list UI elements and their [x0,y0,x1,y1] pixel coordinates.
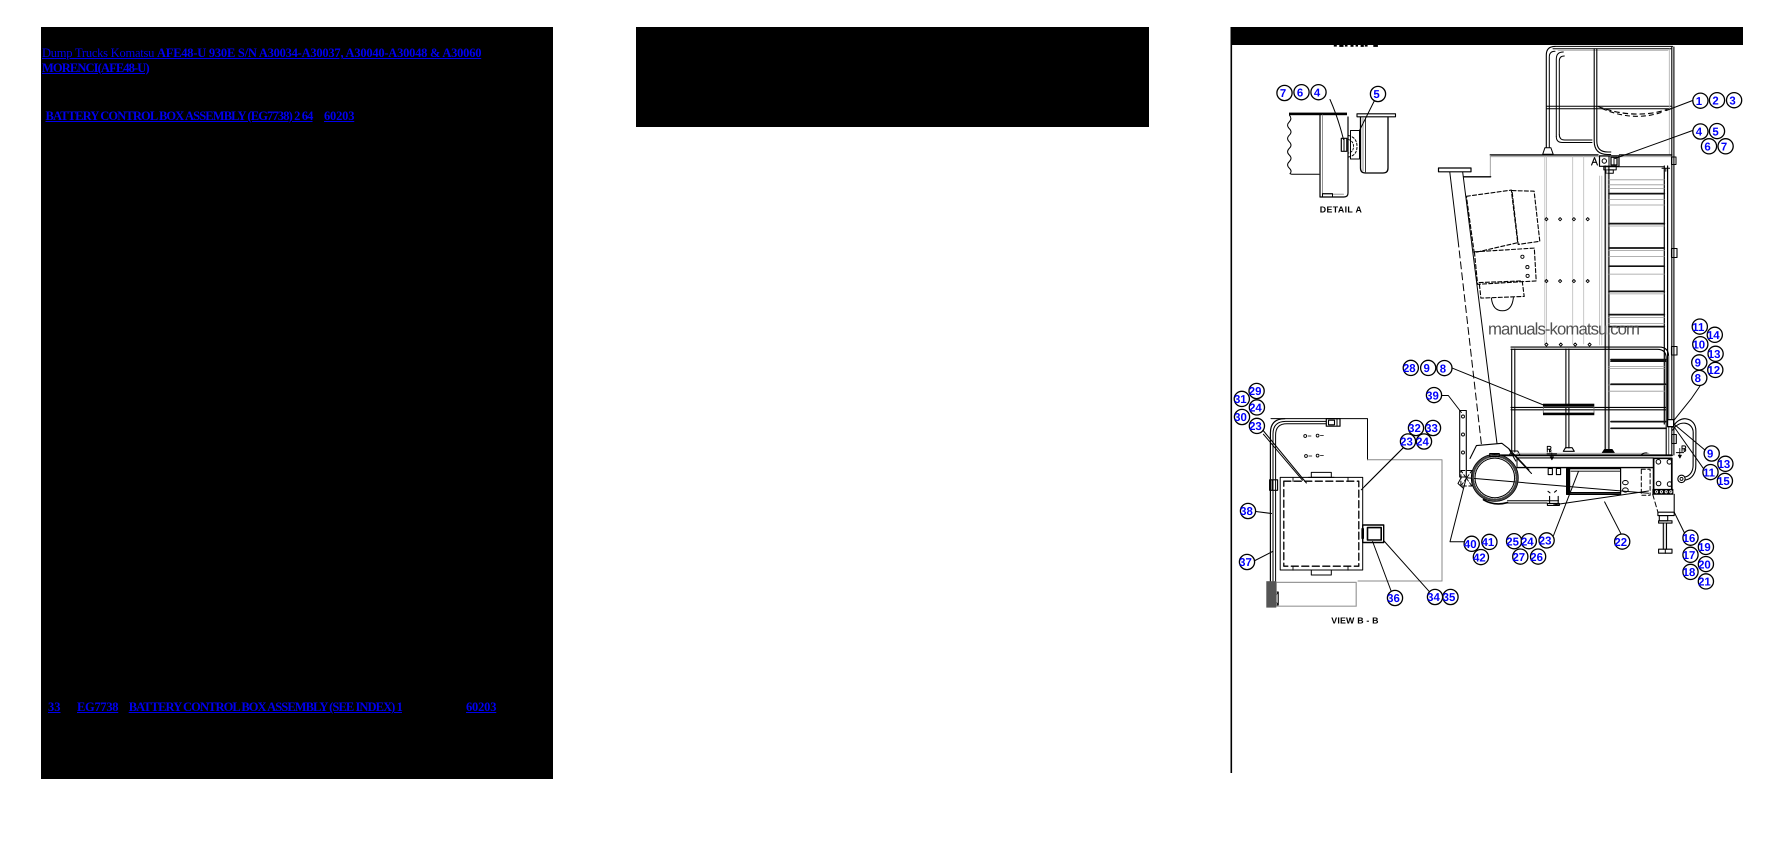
balloon 29 [1249,383,1264,398]
bottom deck edge line [1500,454,1672,456]
leader 36 [1373,542,1392,592]
balloon 14 [1707,327,1722,342]
channel top tab [1326,419,1340,427]
leader 22 [1605,502,1621,534]
left rail inner (second tube) [1556,52,1564,137]
balloon 24 left [1249,400,1264,415]
wall tab mid [1672,249,1678,258]
svg-text:10: 10 [1692,339,1705,351]
balloon 23 left [1249,418,1264,433]
balloon 11 [1692,319,1707,334]
diagonal brace short [1554,491,1649,505]
balloon 40 [1464,536,1479,551]
left rail outer with rounded corner [1546,46,1555,147]
pipe end ball [1678,475,1685,482]
jack foot [1659,549,1672,553]
leaders from 32/33/23/24 cluster [1361,445,1406,490]
support column flange [1439,168,1472,172]
circle bottom flat [1484,500,1508,504]
svg-text:36: 36 [1387,593,1400,605]
svg-text:41: 41 [1482,537,1495,549]
balloon 11 lower [1703,465,1718,480]
svg-text:4: 4 [1696,127,1703,139]
leaders from 29/23 cluster [1263,434,1302,480]
svg-text:1: 1 [1696,96,1703,108]
VBB outer boundary [1271,419,1368,460]
svg-text:4: 4 [1314,87,1321,99]
leader balloon4 to A box [1615,131,1692,159]
svg-text:12: 12 [1707,365,1720,377]
left mount bracket with X [1461,471,1472,487]
equipment box 2 [1512,191,1540,245]
balloon 37 [1239,554,1254,569]
balloon 9 mid [1421,360,1436,375]
mid horizontal rail [1547,106,1672,109]
battery box dashed [1284,481,1359,566]
mount point A box [1592,156,1619,173]
balloon 22 [1614,534,1629,549]
leader 39 [1442,396,1462,413]
svg-text:24: 24 [1521,536,1534,548]
right page: technical diagram [1225,0,1785,842]
ladder rungs dark [1609,194,1666,429]
left rail foot [1543,148,1554,155]
leader 37 [1255,552,1273,561]
pipe fitting at rail [1668,420,1674,427]
svg-text:18: 18 [1683,567,1696,579]
page top redaction bar [1231,27,1743,45]
header text remnants under bar [1334,45,1378,47]
platform top rail (double) [1553,46,1673,48]
svg-text:24: 24 [1249,403,1262,415]
balloon 10 [1692,337,1707,352]
balloon 13 lower [1718,456,1733,471]
detail A: cylinder body [1361,117,1389,173]
balloon 33 [1425,420,1440,435]
detail A: dashed boss outline [1349,136,1358,158]
shadow box gray [1276,582,1356,606]
hanger tabs left of box [1548,468,1552,474]
svg-text:30: 30 [1234,412,1247,424]
equipment box 1 (tilted, dashed) [1466,190,1517,253]
channel bottom foot [1270,592,1279,605]
left panel link line 2 [42,61,149,76]
balloon 5 [1709,124,1724,139]
svg-text:9: 9 [1695,358,1701,370]
detail A: right flange plate [1357,114,1396,117]
balloon 6 [1701,139,1716,154]
wall tab upper [1672,157,1677,165]
diagonal brace long [1466,478,1648,494]
detail A: torn panel wavy left edge [1288,115,1319,174]
balloon 12 [1707,362,1722,377]
balloon 42 [1473,550,1488,565]
svg-text:9: 9 [1424,363,1430,375]
balloon 24 [1521,534,1536,549]
svg-text:13: 13 [1718,459,1731,471]
balloon 21 [1698,574,1713,589]
mounting plate [1653,458,1675,553]
left panel bottom row [48,700,61,715]
ladder right rail [1664,166,1667,424]
detail A balloon 7 [1277,85,1292,100]
inner lower rail curving right [1556,135,1592,143]
detail A: leader to balloon 4 [1330,100,1344,140]
rivet diamonds row 1 [1545,218,1591,347]
leader from balloon 8 (28-9-8 cluster) to plank [1453,368,1544,405]
battery box outer [1280,477,1363,570]
balloon 26 [1530,549,1545,564]
platform mid rail [1511,407,1666,409]
small fastener circles on box 3 [1521,255,1524,258]
small clip marks [1304,435,1307,438]
svg-text:23: 23 [1539,536,1552,548]
pipe fitting overlay [1668,420,1674,427]
jack leg block [1659,516,1667,521]
jack leg upper [1653,494,1658,512]
detail A: central vertical panel [1320,115,1348,197]
balloon 35 [1443,589,1458,604]
balloon 1 [1693,93,1708,108]
svg-text:25: 25 [1506,536,1519,548]
svg-text:8: 8 [1695,373,1701,385]
VBB leader lines [1255,386,1705,592]
balloon 8 mid [1437,361,1452,376]
balloon 31 [1234,391,1249,406]
leader 8 cluster down to fitting [1673,386,1700,422]
svg-text:35: 35 [1443,592,1456,604]
svg-text:33: 33 [1425,423,1438,435]
svg-text:24: 24 [1416,437,1429,449]
plate lower bracket [1653,489,1673,494]
svg-text:5: 5 [1373,89,1380,101]
deck top line [1490,154,1672,156]
motor circle assembly [1461,443,1532,504]
deck plank dark lower [1543,413,1594,416]
box bottom handle [1311,570,1331,575]
svg-text:6: 6 [1297,87,1303,99]
channel side tab [1270,480,1278,491]
dash tick marks on dashed box [1293,477,1348,570]
svg-text:38: 38 [1240,506,1253,518]
hanging bracket [1547,491,1559,506]
leader 16 [1674,512,1684,533]
equipment box 3 [1474,248,1536,284]
mid post with elbow to deck [1594,49,1611,155]
balloon 19 [1698,539,1713,554]
balloon 3 [1727,93,1742,108]
balloon 8 [1692,370,1707,385]
svg-text:6: 6 [1704,142,1710,154]
svg-text:19: 19 [1698,542,1711,554]
svg-text:15: 15 [1717,476,1730,488]
balloon 17 [1683,547,1698,562]
main beam [1517,457,1654,459]
mounting channel strip [1458,411,1466,489]
svg-text:20: 20 [1698,559,1711,571]
balloon 25 [1506,534,1521,549]
svg-text:manuals-komatsu.com: manuals-komatsu.com [1488,320,1640,339]
ladder rungs light [1609,180,1664,391]
svg-text:39: 39 [1426,390,1439,402]
leader 23 (bottom mid cluster) [1554,472,1579,536]
balloon 15 [1717,473,1732,488]
rivet diamonds row 2 [1545,280,1548,283]
svg-text:14: 14 [1707,330,1720,342]
svg-text:27: 27 [1512,552,1525,564]
svg-text:9: 9 [1707,449,1713,461]
svg-text:11: 11 [1703,467,1716,479]
J pipe handrail [1668,419,1696,483]
left panel link line 1 [42,46,481,61]
lower platform left post [1512,349,1515,452]
ladder top bracket [1604,167,1670,172]
svg-text:31: 31 [1234,394,1247,406]
section marker B left [1547,446,1557,459]
small cable arc on deck [1641,453,1647,455]
leader 34 [1384,541,1430,592]
detail A balloon 5 [1370,86,1385,101]
svg-text:13: 13 [1708,349,1721,361]
deck plank dark upper [1543,404,1594,407]
svg-text:28: 28 [1403,363,1416,375]
rivet diamonds row 3 [1545,343,1548,346]
leader 38 [1256,512,1272,514]
circle-to-beam link line [1508,501,1559,503]
section marker B right [1676,446,1685,458]
leader 40 cluster [1450,478,1466,542]
svg-text:2: 2 [1712,95,1718,107]
balloon 23 right [1400,434,1415,449]
balloon 34 [1427,589,1442,604]
leader balloon1 to cable [1666,101,1692,111]
balloon 23 [1539,533,1554,548]
balloon 24 right [1416,434,1431,449]
svg-text:42: 42 [1473,552,1486,564]
mid post foot [1563,448,1574,452]
detail A balloon 6 [1294,85,1309,100]
housing around circle top [1470,443,1516,461]
side connector [1363,525,1384,543]
right wall double vertical [1672,47,1674,455]
svg-text:11: 11 [1692,322,1705,334]
mid post [1566,349,1569,448]
page left border line [1231,27,1233,773]
svg-text:22: 22 [1614,537,1627,549]
detail A: connector block on panel [1341,138,1347,151]
support column right edge [1463,172,1497,443]
balloon 39 [1426,388,1441,403]
balloon 41 [1482,534,1497,549]
VBB left channel [1270,419,1284,598]
balloon 7 [1718,139,1733,154]
third post (ladder rail lower) foot [1602,450,1614,453]
ladder left rail [1605,166,1609,452]
detail A: panel bottom tab [1323,194,1333,197]
balloon 32 [1408,420,1423,435]
box top handle [1311,472,1331,477]
detail A: spacer element [1351,131,1360,160]
balloon 9 [1692,355,1707,370]
balloon 27 [1512,549,1527,564]
balloon 18 [1683,564,1698,579]
balloon 4 [1693,124,1708,139]
under-beam box [1567,469,1621,495]
wall tab bottom [1672,435,1677,444]
deck step left [1489,156,1491,177]
svg-text:26: 26 [1530,552,1543,564]
detail A balloon 4 [1311,85,1326,100]
dashed bracket right [1641,469,1650,495]
svg-text:16: 16 [1683,533,1696,545]
watermark [1488,320,1640,339]
svg-text:5: 5 [1712,126,1719,138]
svg-text:34: 34 [1427,592,1440,604]
svg-text:7: 7 [1280,88,1286,100]
balloon 28 [1403,360,1418,375]
svg-text:23: 23 [1249,421,1262,433]
lower platform top rail with right corner [1511,347,1669,455]
wall tab lower [1672,347,1678,356]
equipment box 4 [1479,281,1524,298]
svg-text:8: 8 [1440,363,1446,375]
balloon 36 [1387,590,1402,605]
jack leg rod [1663,523,1666,549]
balloon 20 [1698,557,1713,572]
svg-text:29: 29 [1249,386,1262,398]
balloon 13 [1708,346,1723,361]
detail A: leader to balloon 5 [1360,101,1375,131]
balloon 16 [1683,530,1698,545]
balloon 30 [1234,409,1249,424]
support column left edge [1450,172,1458,240]
detail A: torn panel thick top edge [1289,113,1347,116]
left black panel [41,27,553,779]
svg-text:23: 23 [1400,437,1413,449]
sagging dashed cable [1598,107,1668,115]
svg-text:17: 17 [1683,550,1696,562]
balloon 9 lower [1704,446,1719,461]
svg-text:40: 40 [1464,539,1477,551]
svg-text:37: 37 [1239,557,1252,569]
svg-text:DETAIL A: DETAIL A [1320,205,1363,215]
left panel link line 3 [46,109,313,124]
dome under box 4 [1491,298,1513,311]
svg-text:32: 32 [1408,423,1421,435]
balloon 38 [1240,503,1255,518]
svg-text:3: 3 [1729,95,1735,107]
circle top key rect [1490,454,1500,457]
box vent ovals [1623,481,1629,485]
svg-text:7: 7 [1721,142,1727,154]
left post foot [1510,451,1520,455]
hidden body edge gray lines [1545,157,1547,344]
leaders from fitting to 9/13 cluster [1673,424,1704,450]
svg-text:VIEW B - B: VIEW B - B [1331,616,1378,626]
middle black panel [636,27,1149,127]
svg-text:21: 21 [1698,577,1711,589]
balloon 2 [1709,93,1724,108]
deck plank outline [1543,407,1594,413]
